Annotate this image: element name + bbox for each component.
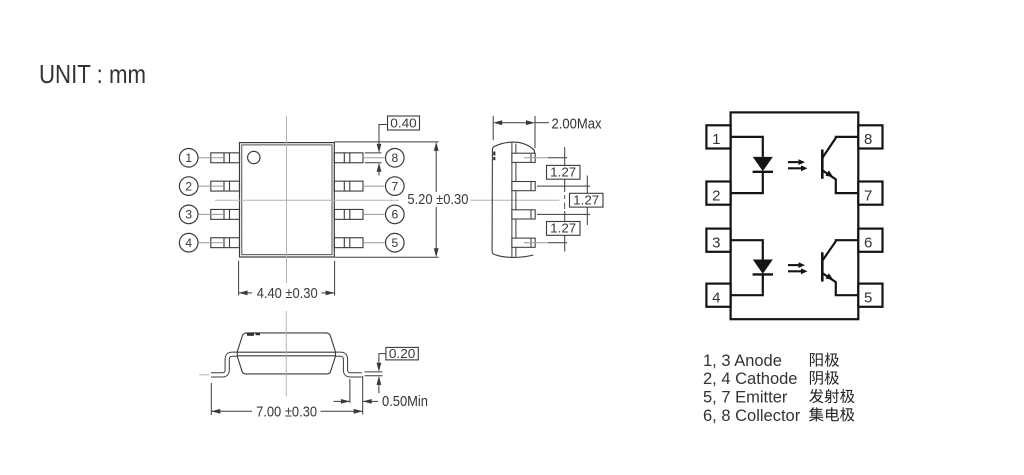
dimension 2.00Max xyxy=(493,116,549,148)
dimension 1.27 (pin2-pin3) xyxy=(570,193,604,207)
leader dash pin 5 xyxy=(364,242,385,244)
light arrows xyxy=(788,161,800,163)
svg-text:1, 3 Anode: 1, 3 Anode xyxy=(703,352,782,370)
top view left pin 3 xyxy=(211,209,240,219)
phototransistor collector xyxy=(822,240,858,261)
pin number circle 4 xyxy=(179,233,198,252)
svg-text:6: 6 xyxy=(391,208,398,222)
svg-text:6: 6 xyxy=(864,234,872,251)
svg-text:5, 7 Emitter: 5, 7 Emitter xyxy=(703,388,788,406)
svg-text:2.00Max: 2.00Max xyxy=(552,116,602,133)
svg-text:2: 2 xyxy=(712,187,720,204)
svg-text:0.20: 0.20 xyxy=(389,346,416,361)
pin tip dashes (side view) xyxy=(524,158,548,243)
pin number circle 5 xyxy=(386,233,405,252)
pitch extension lines xyxy=(537,147,590,252)
pin number circle 1 xyxy=(179,149,198,168)
svg-text:1: 1 xyxy=(185,151,192,165)
svg-text:1.27: 1.27 xyxy=(573,193,599,208)
side view pin 1 xyxy=(512,153,535,162)
schematic pin box 2 xyxy=(706,182,730,205)
top view right pin 8 xyxy=(334,153,363,163)
svg-text:1: 1 xyxy=(712,131,720,148)
top view right pin 7 xyxy=(334,181,363,191)
pitch dimension lines xyxy=(564,147,566,192)
parting line band xyxy=(237,351,335,353)
svg-text:3: 3 xyxy=(185,208,192,222)
svg-text:UNIT : mm: UNIT : mm xyxy=(39,59,146,89)
dimension 1.27 (pin3-pin4) xyxy=(547,222,581,236)
top view left pin 1 xyxy=(211,153,240,163)
leader dash pin 3 xyxy=(199,213,223,215)
svg-text:5: 5 xyxy=(391,236,398,250)
leader dash pin 8 xyxy=(364,157,385,159)
mold marks on side body edge xyxy=(493,152,495,156)
svg-text:3: 3 xyxy=(712,234,720,251)
side view body outline xyxy=(492,142,534,257)
centerline vertical (front view) xyxy=(285,311,287,397)
centerline dash left of foot xyxy=(199,374,209,376)
schematic pin box 8 xyxy=(858,125,882,148)
LED diode xyxy=(753,157,773,171)
schematic pin box 1 xyxy=(706,125,730,148)
light arrows xyxy=(788,264,800,266)
pin number circle 3 xyxy=(179,205,198,224)
pin number circle 8 xyxy=(386,149,405,168)
package body (top view) xyxy=(240,143,335,257)
side view pin 4 xyxy=(512,238,535,247)
svg-text:7: 7 xyxy=(864,187,872,204)
svg-text:5: 5 xyxy=(864,289,872,306)
svg-text:7.00 ±0.30: 7.00 ±0.30 xyxy=(256,403,317,420)
leader dash pin 1 xyxy=(199,157,223,159)
svg-text:2: 2 xyxy=(185,179,192,193)
svg-text:4.40 ±0.30: 4.40 ±0.30 xyxy=(257,285,318,302)
front view gull-wing lead right xyxy=(329,354,362,375)
phototransistor emitter xyxy=(822,170,858,193)
phototransistor collector xyxy=(822,137,858,158)
schematic pin box 5 xyxy=(858,284,882,307)
leader dash pin 7 xyxy=(364,185,385,187)
centerline vertical (top view) xyxy=(286,116,288,283)
top view right pin 5 xyxy=(334,238,363,248)
mold marks on body top xyxy=(247,333,254,336)
dimension 0.40 label box xyxy=(388,116,420,130)
LED cathode wire xyxy=(731,172,763,193)
top view right pin 6 xyxy=(334,209,363,219)
svg-text:1.27: 1.27 xyxy=(550,221,576,236)
leader dash pin 2 xyxy=(199,185,223,187)
schematic pin box 3 xyxy=(706,229,730,252)
svg-text:2, 4 Cathode: 2, 4 Cathode xyxy=(703,370,798,388)
svg-text:7: 7 xyxy=(391,179,398,193)
schematic pin box 6 xyxy=(858,229,882,252)
svg-text:8: 8 xyxy=(391,151,398,165)
svg-text:4: 4 xyxy=(185,236,192,250)
svg-text:1.27: 1.27 xyxy=(550,165,576,180)
svg-text:6, 8 Collector: 6, 8 Collector xyxy=(703,407,801,425)
side view pin 3 xyxy=(512,210,535,219)
schematic pin box 7 xyxy=(858,182,882,205)
dimension 4.40±0.30 xyxy=(239,261,335,296)
side view lead-frame plane lines xyxy=(511,143,513,258)
front view gull-wing lead left xyxy=(211,354,244,375)
svg-text:4: 4 xyxy=(712,289,720,306)
phototransistor base bar xyxy=(821,150,824,179)
LED diode xyxy=(753,260,773,274)
phototransistor emitter xyxy=(822,273,858,295)
pin number circle 7 xyxy=(386,177,405,196)
side view pin 2 xyxy=(512,182,535,191)
dimension 0.50Min xyxy=(334,379,379,403)
dimension 1.27 (pin1-pin2) xyxy=(547,165,581,179)
svg-text:5.20 ±0.30: 5.20 ±0.30 xyxy=(407,191,468,208)
top view left pin 4 xyxy=(211,238,240,248)
svg-text:8: 8 xyxy=(864,131,872,148)
dimension 0.20 xyxy=(386,347,418,360)
leader dash pin 6 xyxy=(364,213,385,215)
pin-1 index dot xyxy=(248,151,260,163)
centerline horizontal (top view to side view) xyxy=(215,199,399,201)
dimension 0.40 leader and arrows xyxy=(365,125,387,176)
pin number circle 6 xyxy=(386,205,405,224)
svg-text:0.40: 0.40 xyxy=(390,116,417,131)
dimension 5.20±0.30 extension lines xyxy=(334,142,438,257)
svg-text:0.50Min: 0.50Min xyxy=(382,393,428,410)
schematic pin box 4 xyxy=(706,284,730,307)
dimension 7.00±0.30 xyxy=(211,376,362,415)
phototransistor base bar xyxy=(821,252,824,281)
LED anode wire xyxy=(731,137,763,157)
optocoupler IC outline U1 xyxy=(731,112,859,319)
LED anode wire xyxy=(731,240,763,259)
leader dash pin 4 xyxy=(199,242,223,244)
LED cathode wire xyxy=(731,274,763,295)
front view body xyxy=(237,333,335,374)
pin number circle 2 xyxy=(179,177,198,196)
top view left pin 2 xyxy=(211,181,240,191)
